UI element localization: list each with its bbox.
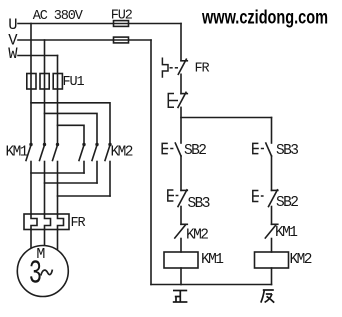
svg-text:KM2: KM2 [186,228,208,244]
svg-text:SB3: SB3 [276,143,298,159]
svg-text:FR: FR [71,216,86,231]
svg-text:KM1: KM1 [275,225,297,241]
svg-text:FU1: FU1 [63,75,85,90]
svg-text:SB3: SB3 [188,196,210,212]
svg-text:KM2: KM2 [111,144,133,160]
svg-text:KM2: KM2 [290,252,312,268]
svg-text:FR: FR [195,62,210,77]
svg-text:KM1: KM1 [6,144,28,160]
svg-text:3: 3 [29,256,42,292]
svg-text:SB2: SB2 [184,143,206,159]
svg-text:W: W [8,45,18,63]
svg-text:AC 380V: AC 380V [33,9,84,24]
svg-text:KM1: KM1 [201,252,223,268]
svg-text:FU2: FU2 [111,9,133,24]
svg-text:SB2: SB2 [276,195,298,211]
svg-text:www.czidong.com: www.czidong.com [201,7,328,28]
